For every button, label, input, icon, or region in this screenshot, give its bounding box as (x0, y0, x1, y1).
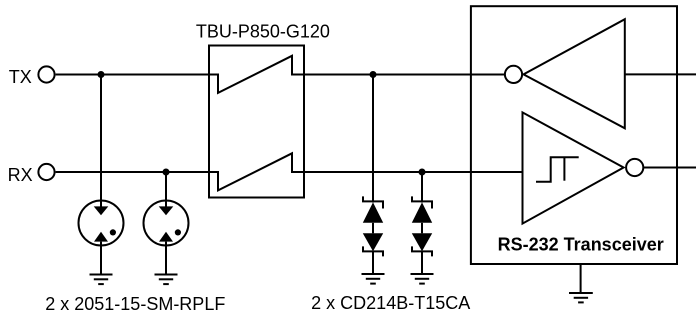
wire receiver output to right edge (644, 167, 696, 169)
driver input bubble (505, 66, 522, 83)
port TX (38, 66, 54, 82)
wire TVS1 leg down (372, 75, 374, 203)
TBU box (209, 46, 304, 198)
junction RX / TVS2 (419, 169, 426, 176)
junction TX / GDT1 (98, 71, 105, 78)
wire GDT1 to ground (100, 242, 102, 275)
wire TX port to TBU (56, 74, 209, 76)
ground GDT2 (155, 275, 178, 285)
wire TVS2 leg down (421, 172, 423, 203)
wire driver output to right edge (625, 73, 696, 75)
TBU element RX channel (209, 153, 304, 190)
port RX (38, 164, 54, 180)
TBU element TX channel (209, 56, 304, 93)
wire TX from TBU to transceiver input bubble (304, 74, 505, 76)
svg-text:RX: RX (8, 165, 33, 185)
wire GDT2 to ground (165, 242, 167, 275)
junction TX / TVS1 (370, 71, 377, 78)
svg-text:2 x 2051-15-SM-RPLF: 2 x 2051-15-SM-RPLF (45, 294, 225, 314)
ground transceiver (569, 293, 593, 302)
ground TVS1 (362, 274, 385, 284)
TVS diode D1 CD214B-T15CA (363, 196, 383, 256)
svg-text:RS-232 Transceiver: RS-232 Transceiver (498, 235, 664, 255)
wire transceiver ground (580, 264, 582, 293)
svg-text:TBU-P850-G120: TBU-P850-G120 (196, 21, 330, 41)
GDT2 2051-15-SM-RPLF (144, 201, 189, 246)
svg-text:2 x CD214B-T15CA: 2 x CD214B-T15CA (311, 293, 470, 313)
wire TVS1 to ground (372, 251, 374, 274)
wire RX from TBU to receiver (304, 171, 523, 173)
wire RX junction down to GDT2 (165, 172, 167, 207)
svg-text:TX: TX (9, 67, 32, 87)
driver triangle (TX, pointing left) (524, 19, 625, 128)
receiver triangle (RX, pointing right) (523, 112, 624, 223)
hysteresis falling edge (563, 157, 565, 180)
wire TVS2 to ground (421, 251, 423, 274)
junction RX / GDT2 (163, 169, 170, 176)
wire TX junction down to GDT1 (100, 75, 102, 207)
TVS diode D2 CD214B-T15CA (412, 196, 432, 256)
receiver output bubble (626, 159, 643, 176)
GDT1 2051-15-SM-RPLF (79, 201, 124, 246)
ground GDT1 (90, 275, 113, 285)
wire RX port to TBU (56, 171, 209, 173)
ground TVS2 (411, 274, 434, 284)
RS-232 transceiver box (471, 6, 677, 264)
hysteresis symbol (536, 157, 579, 181)
